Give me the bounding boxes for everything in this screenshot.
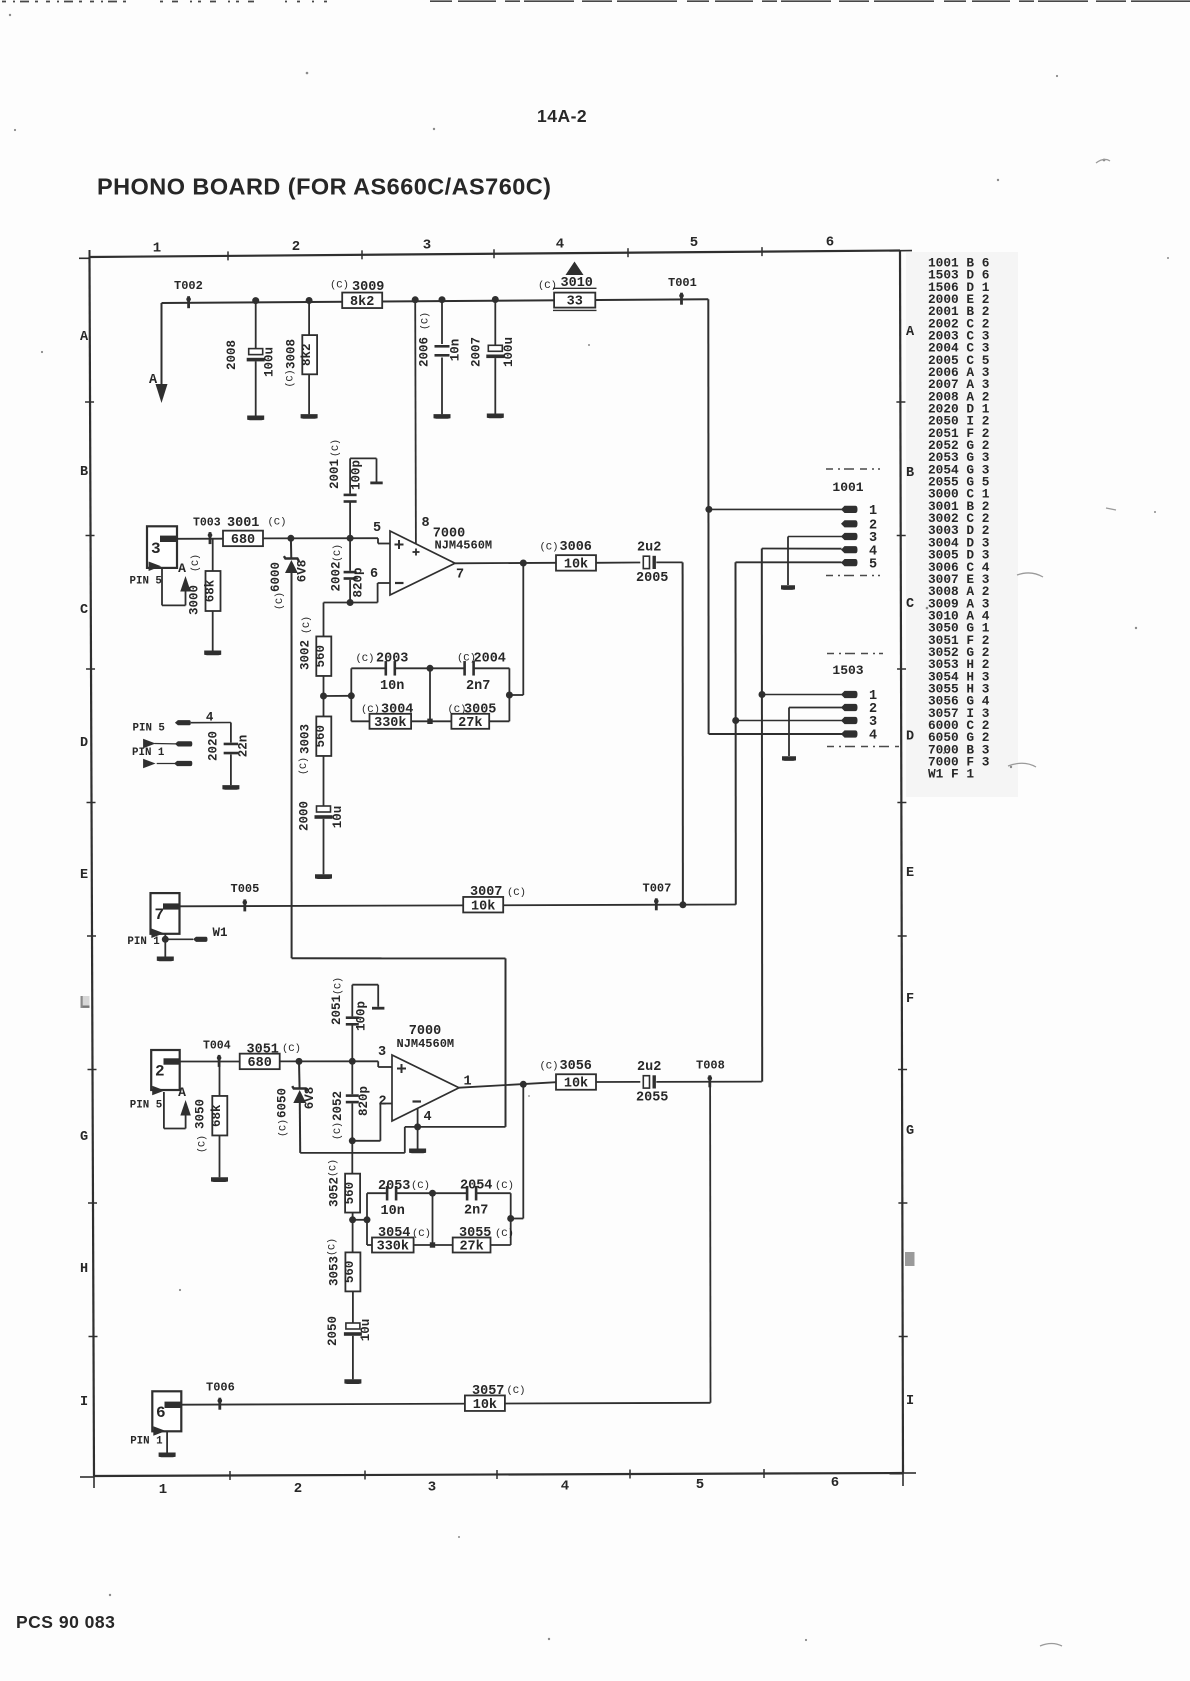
test point T001 — [668, 276, 697, 305]
svg-text:(C): (C) — [282, 1043, 301, 1055]
resistor 3057 10k — [465, 1384, 526, 1413]
svg-text:2: 2 — [292, 239, 300, 255]
svg-text:3007: 3007 — [470, 885, 502, 900]
node junction T007/2005 — [679, 901, 686, 908]
resistor 3000 68k — [188, 539, 221, 651]
svg-text:3050: 3050 — [194, 1099, 208, 1129]
test point T006 — [206, 1381, 235, 1410]
svg-text:(C): (C) — [507, 887, 526, 899]
wire bus to 1001 pin4 / T008 output — [762, 549, 842, 1082]
node A arrow up ch2 — [178, 1085, 191, 1116]
svg-text:PIN 5: PIN 5 — [130, 576, 162, 588]
resistor 3052 560 — [328, 1141, 361, 1253]
wire 1001 pin1 — [709, 508, 842, 510]
wire 1503 pin3 — [736, 720, 842, 722]
wire input ch2 — [180, 1061, 241, 1063]
svg-text:(C): (C) — [538, 280, 557, 292]
svg-text:F: F — [906, 992, 914, 1007]
svg-text:10k: 10k — [473, 1398, 497, 1413]
svg-text:2020: 2020 — [207, 731, 221, 761]
ground conn7 — [157, 957, 174, 962]
svg-text:6V8: 6V8 — [303, 1087, 317, 1110]
svg-text:6: 6 — [370, 567, 378, 582]
resistor 3010 33 (safety) — [538, 276, 597, 310]
svg-text:2u2: 2u2 — [637, 541, 661, 556]
capacitor 2001 100p — [328, 439, 383, 538]
node junction 1503 pin3 — [732, 717, 739, 724]
svg-text:2053: 2053 — [378, 1179, 410, 1194]
svg-text:2054: 2054 — [460, 1179, 492, 1194]
wire minus input ch2 — [352, 1104, 392, 1141]
svg-text:(C): (C) — [268, 517, 287, 529]
svg-text:3004: 3004 — [381, 703, 413, 718]
svg-text:(C): (C) — [495, 1228, 514, 1240]
test point T003 — [193, 517, 221, 545]
svg-text:100u: 100u — [502, 337, 516, 367]
connector 7 (link) — [151, 893, 180, 938]
node A arrow up ch1 — [178, 561, 191, 592]
capacitor 2051 100p — [330, 977, 384, 1061]
svg-text:68k: 68k — [203, 579, 217, 602]
svg-text:100p: 100p — [350, 460, 364, 490]
wire 1001 pin3 to ground — [788, 537, 842, 586]
svg-text:2052: 2052 — [331, 1091, 345, 1121]
resistor 3005 27k — [430, 703, 509, 731]
capacitor 2004 2n7 — [430, 652, 509, 695]
connector 1001 outline dashes — [826, 469, 880, 576]
svg-text:2055: 2055 — [636, 1091, 668, 1106]
scanner edge artifact top — [2, 0, 1190, 2]
svg-text:T003: T003 — [193, 517, 221, 530]
svg-text:560: 560 — [314, 645, 328, 668]
wire 1503 pin4 — [709, 733, 842, 735]
svg-text:C: C — [906, 597, 914, 612]
test point T008 — [696, 1059, 725, 1088]
svg-text:A: A — [178, 561, 186, 576]
test point T004 — [203, 1040, 231, 1067]
svg-text:E: E — [80, 868, 88, 883]
connector 1001 pins — [841, 504, 877, 572]
wire minus input ch1 — [324, 583, 391, 603]
svg-text:(C): (C) — [412, 1228, 431, 1240]
ground 3000 — [204, 651, 221, 656]
wire conn2 to A arrow — [164, 1092, 186, 1129]
svg-text:27k: 27k — [458, 716, 482, 731]
svg-text:PIN 5: PIN 5 — [130, 1100, 162, 1112]
svg-text:330k: 330k — [377, 1240, 409, 1255]
svg-text:2002: 2002 — [330, 561, 344, 591]
svg-text:A: A — [149, 373, 158, 388]
svg-text:3055: 3055 — [459, 1226, 491, 1241]
svg-text:2n7: 2n7 — [466, 679, 490, 694]
svg-text:10k: 10k — [564, 1077, 588, 1092]
svg-text:2004: 2004 — [474, 652, 506, 667]
svg-text:3005: 3005 — [464, 703, 496, 718]
svg-text:560: 560 — [314, 725, 328, 748]
svg-text:(C): (C) — [285, 369, 297, 387]
svg-text:3001: 3001 — [227, 516, 259, 531]
svg-text:3056: 3056 — [560, 1059, 592, 1074]
node 2052 bottom — [349, 1137, 356, 1144]
svg-text:(C): (C) — [411, 1180, 430, 1192]
wire T008 down to row I — [709, 1082, 711, 1403]
svg-text:2051: 2051 — [330, 995, 344, 1025]
terminal low row D — [143, 759, 192, 769]
resistor 3053 560 — [327, 1238, 361, 1323]
node junction 1503 pin1 — [759, 691, 766, 698]
svg-text:(C): (C) — [190, 554, 202, 572]
svg-text:(C): (C) — [332, 1122, 344, 1140]
svg-text:PIN 1: PIN 1 — [132, 747, 165, 759]
wire input ch1 — [177, 538, 223, 540]
wire power rail — [162, 299, 709, 303]
svg-text:3009: 3009 — [352, 280, 384, 295]
node network right ch1 — [506, 692, 513, 699]
svg-text:3057: 3057 — [472, 1384, 504, 1399]
svg-text:4: 4 — [561, 1479, 569, 1495]
svg-text:PIN 1: PIN 1 — [130, 1436, 163, 1448]
resistor 3056 10k — [540, 1059, 597, 1092]
svg-text:T006: T006 — [206, 1381, 235, 1395]
wire opamp1 output — [455, 562, 556, 565]
node 2051/2052 tap ch2 — [349, 1058, 356, 1065]
capacitor 2053 10n — [367, 1179, 433, 1219]
wire conn6 ground leg — [166, 1431, 168, 1452]
wire feedback ch1 — [509, 563, 523, 695]
connector 3 (input L) — [147, 526, 178, 571]
svg-text:10k: 10k — [564, 558, 588, 573]
connector 1503 pins — [841, 689, 877, 744]
wire 1503 pin2 to ground — [789, 708, 842, 757]
svg-text:3000: 3000 — [188, 585, 202, 615]
wire left stub down — [161, 303, 163, 389]
svg-text:6000: 6000 — [269, 562, 283, 592]
wire zener bus ch1 to ground rail — [292, 958, 506, 1127]
svg-text:(C): (C) — [278, 1119, 290, 1137]
svg-text:100p: 100p — [355, 1001, 369, 1031]
resistor 3006 10k — [540, 540, 597, 573]
ground 1001 pin3 — [781, 585, 795, 590]
terminal pin5 row D — [175, 720, 191, 725]
svg-text:2050: 2050 — [326, 1316, 340, 1346]
node chain mid ch1 — [320, 693, 327, 700]
terminal mid row D — [143, 739, 192, 749]
node 2001/2002 tap ch1 — [347, 535, 354, 542]
svg-text:(C): (C) — [298, 757, 310, 775]
svg-text:4: 4 — [424, 1110, 432, 1125]
svg-text:8: 8 — [422, 516, 430, 531]
node 2002 bottom — [347, 599, 354, 606]
capacitor 2005 2u2 — [636, 541, 668, 587]
svg-text:(C): (C) — [328, 1159, 340, 1177]
wire opamp2 output — [459, 1082, 556, 1088]
svg-text:T004: T004 — [203, 1040, 231, 1053]
resistor 3001 680 — [223, 516, 286, 548]
node junction 3008 — [306, 297, 313, 304]
svg-text:(C): (C) — [274, 592, 286, 610]
svg-text:I: I — [906, 1394, 914, 1409]
node junction 2008 — [252, 297, 259, 304]
svg-text:PCS 90 083: PCS 90 083 — [16, 1612, 115, 1632]
row labels left — [80, 330, 89, 1410]
svg-text:6: 6 — [826, 235, 834, 251]
capacitor 2007 100u — [470, 300, 517, 414]
network ch1 rails — [351, 668, 509, 721]
zener diode 6050 6V8 — [276, 1061, 318, 1153]
svg-text:1: 1 — [159, 1482, 167, 1498]
node network mid top ch2 — [429, 1190, 436, 1197]
svg-text:5: 5 — [690, 235, 698, 251]
svg-text:6: 6 — [831, 1475, 839, 1491]
svg-text:10n: 10n — [449, 339, 463, 362]
resistor 3007 10k — [463, 885, 526, 914]
resistor 3050 68k — [194, 1062, 228, 1178]
svg-text:6V8: 6V8 — [296, 560, 310, 583]
wire 2055 to bus — [656, 1081, 762, 1083]
wire T001 bus down — [707, 299, 709, 734]
wire to W1 bar — [165, 938, 193, 940]
svg-text:C: C — [80, 603, 88, 618]
node chain mid ch2 — [349, 1216, 356, 1223]
wire bus to 1001 pin5 / row E — [736, 562, 842, 904]
svg-text:3051: 3051 — [247, 1043, 279, 1058]
svg-text:(C): (C) — [540, 1061, 559, 1073]
svg-text:(C): (C) — [361, 704, 380, 716]
capacitor 2052 820p — [331, 1061, 371, 1141]
svg-text:3052: 3052 — [328, 1177, 342, 1207]
svg-text:10k: 10k — [471, 899, 495, 914]
svg-text:7: 7 — [456, 568, 464, 583]
resistor 3054 330k — [367, 1226, 433, 1255]
svg-text:2007: 2007 — [470, 337, 484, 367]
svg-text:3006: 3006 — [560, 540, 592, 555]
resistor 3004 330k — [351, 703, 430, 731]
wire row E — [177, 905, 736, 907]
wire chain tap ch1 — [324, 695, 352, 697]
resistor 3003 560 — [298, 716, 331, 806]
svg-text:T008: T008 — [696, 1059, 725, 1073]
svg-text:(C): (C) — [327, 1238, 339, 1256]
svg-text:T005: T005 — [231, 882, 260, 896]
wire 2005 output down — [656, 562, 683, 904]
svg-text:1503: 1503 — [832, 663, 863, 678]
svg-text:(C): (C) — [301, 616, 313, 634]
terminal W1 — [193, 937, 208, 942]
wire 3001 to opamp — [263, 538, 390, 543]
node network left ch2 — [364, 1216, 371, 1223]
capacitor 2050 10u — [326, 1316, 373, 1379]
node network mid top ch1 — [427, 665, 434, 672]
svg-text:5: 5 — [696, 1477, 704, 1493]
svg-text:D: D — [80, 736, 88, 751]
svg-text:(C): (C) — [420, 312, 432, 330]
svg-text:3054: 3054 — [378, 1226, 410, 1241]
test point T005 — [231, 882, 260, 911]
svg-text:(C): (C) — [197, 1135, 209, 1153]
ground 2020 — [222, 785, 239, 790]
capacitor 2002 820p — [330, 538, 366, 602]
wire conn7 ground leg — [164, 934, 166, 957]
svg-text:PIN 1: PIN 1 — [127, 936, 160, 948]
connector 1503 outline dashes — [827, 654, 899, 747]
svg-text:2: 2 — [155, 1063, 165, 1081]
svg-text:1: 1 — [869, 504, 877, 519]
svg-text:8k2: 8k2 — [300, 343, 314, 366]
svg-text:560: 560 — [343, 1261, 357, 1284]
row label H right (degraded block) — [905, 1252, 915, 1266]
column labels bottom — [159, 1475, 839, 1498]
svg-text:3002: 3002 — [299, 640, 313, 670]
svg-text:3: 3 — [423, 238, 431, 254]
svg-text:10n: 10n — [381, 1204, 405, 1219]
op-amp U1 7000 NJM4560M — [370, 516, 492, 595]
svg-text:14A-2: 14A-2 — [537, 106, 587, 126]
svg-text:(C): (C) — [332, 544, 344, 562]
svg-text:G: G — [906, 1124, 914, 1139]
wire conn3 to A arrow — [162, 569, 186, 605]
resistor 3002 560 — [299, 603, 332, 718]
network ch2 rails — [367, 1193, 511, 1245]
svg-text:(C): (C) — [330, 280, 349, 292]
wire pin4 ground stub — [417, 1108, 419, 1148]
svg-text:2006: 2006 — [418, 337, 432, 367]
svg-text:10u: 10u — [359, 1319, 373, 1342]
node network left ch1 — [348, 692, 355, 699]
ground 2008 — [247, 416, 264, 421]
svg-text:B: B — [80, 465, 88, 480]
wire 3006 to 2005 — [596, 562, 640, 564]
connector 6 (link R) — [152, 1391, 181, 1435]
svg-text:2n7: 2n7 — [464, 1204, 488, 1219]
capacitor 2000 10u — [298, 801, 346, 874]
resistor 3051 680 — [240, 1043, 301, 1072]
wire feedback ch2 — [511, 1084, 524, 1218]
node junction 2007 — [492, 296, 499, 303]
svg-text:820p: 820p — [352, 567, 366, 597]
svg-text:27k: 27k — [459, 1240, 483, 1255]
component location list — [928, 256, 990, 782]
svg-text:820p: 820p — [357, 1086, 371, 1116]
wire row I — [181, 1403, 710, 1405]
svg-text:3003: 3003 — [299, 724, 313, 754]
svg-text:NJM4560M: NJM4560M — [435, 539, 493, 553]
svg-text:6050: 6050 — [276, 1088, 290, 1118]
svg-text:6: 6 — [156, 1404, 166, 1422]
svg-text:(C): (C) — [495, 1180, 514, 1192]
wire ground rail mid — [300, 1127, 505, 1153]
column labels top — [153, 235, 834, 257]
svg-text:(C): (C) — [356, 653, 375, 665]
svg-text:10u: 10u — [331, 806, 345, 829]
wire 1503 pin1 — [762, 694, 842, 696]
svg-text:A: A — [906, 325, 915, 340]
capacitor 2054 2n7 — [433, 1179, 514, 1219]
node pin4 junction — [414, 1123, 421, 1130]
svg-text:8k2: 8k2 — [350, 295, 374, 310]
svg-text:(C): (C) — [333, 977, 345, 995]
svg-text:W1: W1 — [213, 926, 228, 940]
row label F left (degraded block) — [81, 996, 90, 1008]
svg-text:4: 4 — [556, 237, 564, 253]
wire chain tap ch2 — [353, 1219, 367, 1221]
svg-text:W1 F 1: W1 F 1 — [928, 767, 974, 782]
svg-text:3: 3 — [151, 540, 161, 558]
svg-text:D: D — [906, 730, 914, 745]
svg-text:7: 7 — [155, 906, 165, 924]
wire 3056 to 2055 — [596, 1081, 640, 1083]
resistor 3055 27k — [433, 1226, 514, 1255]
capacitor 2006 10n — [418, 300, 463, 415]
svg-text:PIN 5: PIN 5 — [133, 723, 165, 735]
ground opamp2 pin4 — [409, 1149, 426, 1154]
svg-text:1: 1 — [153, 241, 161, 257]
svg-text:3010: 3010 — [561, 276, 593, 291]
svg-text:3053: 3053 — [328, 1256, 342, 1286]
svg-text:560: 560 — [343, 1182, 357, 1205]
svg-text:T001: T001 — [668, 276, 697, 290]
svg-text:2001: 2001 — [328, 459, 342, 489]
node A arrow down — [149, 373, 168, 403]
capacitor 2008 100u — [225, 301, 277, 416]
capacitor 2003 10n — [351, 652, 430, 695]
svg-text:680: 680 — [248, 1056, 272, 1071]
node zener tap ch1 — [287, 535, 294, 542]
ground 2050 — [344, 1379, 361, 1384]
svg-text:100u: 100u — [263, 347, 277, 377]
svg-text:3008: 3008 — [285, 339, 299, 369]
svg-text:A: A — [178, 1085, 186, 1100]
svg-text:5: 5 — [373, 521, 381, 536]
svg-text:T007: T007 — [643, 882, 672, 896]
ground 2007 — [487, 414, 504, 419]
svg-text:2008: 2008 — [225, 340, 239, 370]
resistor 3009 8k2 — [330, 280, 384, 310]
node zener tap ch2 — [296, 1058, 303, 1065]
svg-text:3: 3 — [428, 1480, 436, 1496]
svg-text:G: G — [80, 1130, 88, 1145]
svg-text:NJM4560M: NJM4560M — [397, 1037, 455, 1051]
node feedback tap ch1 — [520, 560, 527, 567]
node junction 2006 — [439, 296, 446, 303]
node junction pin8 feed — [412, 296, 419, 303]
svg-text:10n: 10n — [380, 679, 404, 694]
svg-text:(C): (C) — [507, 1385, 526, 1397]
svg-text:3: 3 — [378, 1045, 386, 1060]
svg-text:H: H — [80, 1262, 88, 1277]
svg-text:T002: T002 — [174, 279, 203, 293]
node W1 junction — [162, 936, 169, 943]
resistor 3008 8k2 — [285, 301, 318, 415]
svg-text:2000: 2000 — [298, 801, 312, 831]
svg-text:I: I — [80, 1395, 88, 1410]
svg-text:330k: 330k — [374, 716, 406, 731]
ground 2006 — [434, 414, 451, 419]
border frame — [79, 247, 916, 1488]
row labels right — [906, 325, 915, 1409]
svg-text:2u2: 2u2 — [637, 1060, 661, 1075]
svg-text:B: B — [906, 466, 914, 481]
node feedback tap ch2 — [520, 1081, 527, 1088]
svg-text:1001: 1001 — [832, 480, 863, 495]
test point T002 — [174, 279, 203, 308]
connector 2 (input R) — [151, 1050, 180, 1095]
ground 3008 — [301, 414, 318, 419]
capacitor 2020 22n — [207, 731, 251, 785]
wire pin8 from rail — [414, 300, 417, 544]
svg-text:4: 4 — [206, 710, 214, 724]
node junction 1001 pin1 — [705, 506, 712, 513]
svg-text:PHONO BOARD (FOR AS660C/AS760C: PHONO BOARD (FOR AS660C/AS760C) — [97, 174, 551, 200]
